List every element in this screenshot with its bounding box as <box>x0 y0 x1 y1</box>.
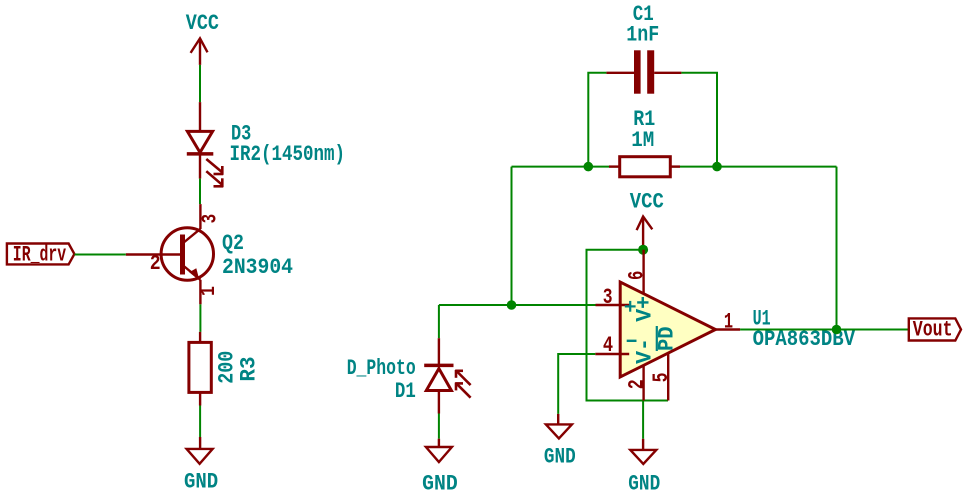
junction dot (C1 left / R1 left) <box>584 162 594 172</box>
svg-text:Vout: Vout <box>913 318 953 343</box>
wire output feedback up <box>836 167 838 330</box>
wire D1 anode up <box>438 305 440 338</box>
svg-text:GND: GND <box>184 469 218 494</box>
pin 5 (PD) <box>667 352 669 401</box>
svg-text:Q2: Q2 <box>222 231 244 256</box>
wire VCC to PD enable loop <box>587 250 669 401</box>
power symbol VCC (left) <box>186 11 219 65</box>
transistor Q2 <box>126 204 214 304</box>
svg-text:1nF: 1nF <box>626 23 659 48</box>
junction dot (output node) <box>832 325 842 335</box>
svg-text:GND: GND <box>628 472 660 497</box>
svg-text:2: 2 <box>624 379 649 389</box>
pin marker + (inside op-amp) <box>625 301 636 312</box>
svg-text:IR2(1450nm): IR2(1450nm) <box>230 142 346 167</box>
wire R3 to GND <box>199 406 201 438</box>
svg-text:6: 6 <box>624 271 649 280</box>
svg-text:1M: 1M <box>631 128 654 153</box>
op-amp U1 <box>620 282 715 377</box>
wire D3 to Q2 <box>199 179 201 205</box>
svg-text:VCC: VCC <box>186 11 219 36</box>
wire Q2 emitter to R3 <box>199 304 201 332</box>
junction dot (VCC / PD loop) <box>638 245 648 255</box>
pin 6 (V+) <box>642 250 644 294</box>
resistor R1 <box>609 157 680 177</box>
svg-text:2: 2 <box>150 253 161 276</box>
wire pin 2 to GND <box>642 401 644 439</box>
svg-text:3: 3 <box>200 214 223 224</box>
svg-text:3: 3 <box>603 285 613 310</box>
LED D3 <box>187 102 223 187</box>
wire VCC to D3 <box>199 65 201 102</box>
ground GND (left) <box>184 437 218 494</box>
svg-text:1: 1 <box>724 310 733 335</box>
svg-text:VCC: VCC <box>630 190 664 215</box>
svg-text:D1: D1 <box>395 379 416 404</box>
svg-text:V+: V+ <box>633 296 658 322</box>
svg-text:2N3904: 2N3904 <box>222 255 293 280</box>
svg-text:IR_drv: IR_drv <box>13 243 66 268</box>
junction dot (C1 right / R1 right) <box>712 162 722 172</box>
ground for pin 4 <box>544 414 576 470</box>
net label IR_drv <box>7 243 75 268</box>
svg-text:GND: GND <box>422 471 458 496</box>
pin 1 (output) <box>716 328 741 330</box>
pin marker - (inside op-amp) <box>627 340 637 342</box>
capacitor C1 <box>606 50 681 93</box>
resistor R3 <box>189 332 211 406</box>
wire pin 4 to GND <box>558 354 595 414</box>
svg-text:5: 5 <box>649 373 674 383</box>
pin 4 (V-) <box>595 353 629 355</box>
photodiode D1 <box>424 338 470 413</box>
ground for pin 2 <box>628 439 660 497</box>
svg-text:R3: R3 <box>237 357 262 382</box>
wire D1 to GND <box>438 414 440 439</box>
wire C1 left <box>588 73 606 167</box>
pin 2 <box>642 365 644 401</box>
pin 3 (non-inverting input) <box>596 304 630 306</box>
svg-text:D_Photo: D_Photo <box>347 356 416 381</box>
power symbol VCC (op-amp) <box>630 190 664 250</box>
wire C1 right <box>681 73 717 167</box>
wire op-amp output to Vout <box>740 329 909 331</box>
wire feedback left drop to + input <box>511 167 513 305</box>
net label Vout <box>909 318 961 343</box>
junction dot (+ input node) <box>507 300 517 310</box>
svg-text:1: 1 <box>198 286 221 296</box>
svg-text:PD: PD <box>654 326 679 351</box>
wire photodiode node to pin 3 <box>439 304 596 306</box>
wire feedback top rail <box>512 166 620 168</box>
wire IR_drv to Q2 base <box>75 254 126 256</box>
svg-text:4: 4 <box>603 333 613 358</box>
svg-text:GND: GND <box>544 444 576 469</box>
ground for D1 <box>422 439 458 497</box>
